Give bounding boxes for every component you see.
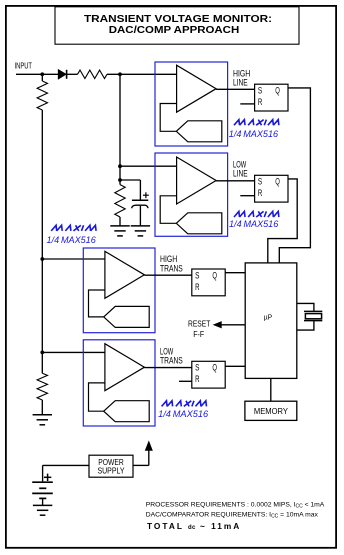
svg-text:SUPPLY: SUPPLY (98, 466, 126, 475)
wire FF2 Q to uP (268, 179, 297, 263)
logo MAXIM U4 (158, 401, 208, 419)
title line 1 (84, 14, 272, 25)
title line 2 (109, 25, 240, 36)
svg-text:TRANSIENT VOLTAGE MONITOR:: TRANSIENT VOLTAGE MONITOR: (84, 14, 272, 25)
wire FF1 R stub (240, 103, 254, 105)
wire crystal bottom to uP (297, 321, 314, 331)
pin Q FF2 low-line (275, 177, 280, 187)
wire DAC U3 high-trans feedback (89, 290, 105, 317)
svg-text:TRANS: TRANS (160, 356, 183, 366)
ground under R5 (33, 415, 52, 425)
svg-text:PROCESSOR REQUIREMENTS : 0.000: PROCESSOR REQUIREMENTS : 0.0002 MIPS, IC… (146, 502, 325, 510)
microprocessor U5 box (245, 263, 297, 379)
svg-text:1/4 MAX516: 1/4 MAX516 (47, 235, 96, 245)
logo MAXIM U1 (229, 120, 281, 139)
microprocessor U5 label (264, 312, 272, 321)
wire left column long (41, 110, 43, 373)
wire FF4 R stub (179, 380, 192, 382)
svg-text:1/4 MAX516: 1/4 MAX516 (229, 219, 278, 229)
svg-text:R: R (258, 188, 263, 198)
note dac requirements (146, 512, 319, 520)
svg-text:1/4 MAX516: 1/4 MAX516 (158, 409, 208, 419)
ground under R3 (110, 226, 129, 236)
DAC U1 high-line (176, 121, 222, 142)
resistor R5 bottom left (37, 373, 47, 400)
junction high-trans tap (40, 257, 44, 261)
wire node A down (119, 74, 121, 184)
svg-text:S: S (195, 363, 199, 373)
junction line comp tap (118, 164, 122, 168)
battery BT1 (32, 482, 53, 498)
logo MAXIM U2 (229, 211, 281, 229)
svg-text:INPUT: INPUT (15, 61, 33, 71)
flip-flop FF1 high-line box (255, 84, 288, 111)
wire FF1 Q to uP (279, 88, 310, 263)
pin R FF3 high-trans (195, 282, 200, 292)
pin S FF2 low-line (258, 177, 262, 187)
op-amp block U3 high-trans box (83, 248, 155, 333)
ground under C1 (131, 226, 150, 236)
wire DAC U1 high-line feedback (160, 104, 176, 132)
svg-text:µP: µP (264, 312, 272, 321)
reset arrow (214, 322, 221, 328)
svg-text:R: R (258, 97, 263, 107)
svg-text:1/4 MAX516: 1/4 MAX516 (229, 129, 278, 139)
wire FF2 R stub (240, 195, 254, 197)
wire FF4 Q to uP (225, 365, 245, 367)
svg-text:LINE: LINE (233, 77, 248, 87)
note processor requirements (146, 502, 325, 510)
resistor R3 to ground (115, 185, 125, 217)
svg-text:DAC/COMP APPROACH: DAC/COMP APPROACH (109, 25, 240, 36)
comparator U2 low-line (177, 157, 217, 204)
wire C1 to ground (139, 206, 141, 226)
power supply box (89, 455, 133, 477)
svg-text:Q: Q (212, 363, 217, 373)
pin S FF4 low-trans (195, 363, 199, 373)
wire left column upper (41, 74, 43, 81)
pin Q FF1 high-line (275, 86, 280, 96)
pin R FF4 low-trans (195, 374, 200, 384)
crystal Y1 (304, 311, 322, 320)
wire supply to arrow (133, 450, 149, 466)
wire uP to memory (270, 378, 272, 401)
op-amp block U4 low-trans box (83, 340, 155, 426)
wire U3 out to FF3 S (144, 274, 191, 276)
svg-text:LINE: LINE (233, 168, 248, 178)
net RESET F-F label (188, 320, 210, 340)
svg-text:RESET: RESET (188, 320, 210, 329)
resistor R1 to ground path top (37, 81, 47, 110)
flip-flop FF2 low-line box (255, 175, 288, 202)
comparator U4 low-trans (105, 344, 144, 391)
svg-text:R: R (195, 374, 200, 384)
pin R FF2 low-line (258, 188, 263, 198)
node INPUT label (15, 61, 33, 71)
wire battery to ground (42, 498, 44, 505)
svg-text:MEMORY: MEMORY (254, 407, 288, 416)
svg-text:Q: Q (275, 86, 280, 96)
capacitor C1 (132, 200, 149, 208)
wire U2 out to FF2 S (216, 180, 255, 182)
net label HIGH TRANS (160, 254, 183, 273)
svg-text:DAC/COMPARATOR REQUIREMENTS: I: DAC/COMPARATOR REQUIREMENTS: ICC = 10mA … (146, 512, 319, 520)
wire tap to low-line comp (120, 165, 177, 167)
diode D1 (58, 70, 66, 79)
svg-text:R: R (195, 282, 200, 292)
flip-flop FF3 high-trans box (192, 269, 225, 296)
logo MAXIM U3 (47, 225, 99, 245)
junction RC tap (118, 178, 122, 182)
wire reset to uP (221, 324, 245, 326)
pin Q FF3 high-trans (212, 270, 217, 280)
svg-text:S: S (258, 177, 262, 187)
net label LOW TRANS (160, 346, 183, 365)
junction input divider (40, 72, 44, 76)
battery plus (44, 474, 51, 481)
wire DAC U2 low-line feedback (160, 196, 176, 224)
svg-text:S: S (195, 270, 199, 280)
wire tap to low-trans comp (42, 351, 105, 353)
note total current (147, 521, 241, 531)
ground battery (33, 505, 52, 515)
svg-text:S: S (258, 86, 262, 96)
resistor R2 series (78, 70, 108, 78)
svg-text:F-F: F-F (193, 330, 204, 339)
net label LOW LINE (233, 160, 248, 179)
comparator U3 high-trans (105, 251, 144, 298)
pin Q FF4 low-trans (212, 363, 217, 373)
wire DAC U4 low-trans feedback (89, 383, 105, 411)
wire to ground bottom left (41, 400, 43, 415)
op-amp block U2 low-line box (155, 153, 228, 236)
wire battery to supply (43, 465, 89, 481)
op-amp block U1 high-line box (155, 62, 228, 146)
svg-text:Q: Q (212, 270, 217, 280)
wire resistor-node (107, 73, 177, 75)
power supply label (98, 458, 126, 476)
wire FF3 Q to uP (225, 272, 245, 274)
wire RC tap to cap (120, 180, 140, 200)
memory label (254, 407, 288, 416)
svg-text:TRANS: TRANS (160, 263, 183, 273)
pin R FF1 high-line (258, 97, 263, 107)
wire diode-resistor (66, 73, 78, 75)
wire U1 out to FF1 S (216, 88, 255, 90)
flip-flop FF4 low-trans box (192, 361, 225, 388)
title box (55, 7, 299, 44)
wire input (16, 73, 58, 75)
junction node A (118, 72, 122, 76)
net label HIGH LINE (233, 68, 250, 87)
svg-text:Q: Q (275, 177, 280, 187)
wire uP to crystal top (297, 303, 314, 311)
memory U6 box (245, 401, 297, 420)
capacitor C1 plus (143, 192, 149, 198)
wire U4 out to FF4 S (144, 367, 191, 369)
DAC U4 low-trans (104, 401, 150, 422)
wire R3 to ground (119, 217, 121, 226)
junction low-trans tap (40, 351, 44, 355)
wire tap to high-trans comp (42, 258, 105, 260)
power arrow up (146, 442, 153, 451)
pin S FF3 high-trans (195, 270, 199, 280)
pin S FF1 high-line (258, 86, 262, 96)
comparator U1 high-line (177, 65, 217, 112)
DAC U3 high-trans (104, 306, 150, 327)
DAC U2 low-line (176, 213, 222, 234)
